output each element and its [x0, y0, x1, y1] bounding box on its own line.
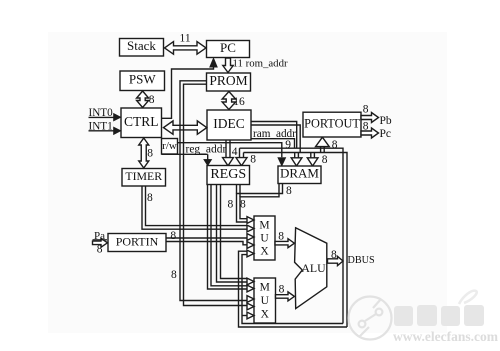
port PORTOUT	[303, 112, 361, 137]
svg-text:PC: PC	[220, 40, 236, 55]
input arrowhead upper MUX y253.5	[247, 250, 254, 257]
wire DRAM input shaft b	[297, 153, 299, 158]
svg-text:8: 8	[97, 244, 103, 256]
bus arrow PROM-IDEC (16)	[222, 92, 236, 110]
svg-text:8: 8	[363, 120, 369, 132]
svg-text:8: 8	[250, 154, 256, 166]
wire REGS left bus A to lower MUX in2	[208, 185, 247, 290]
svg-text:ALU: ALU	[301, 261, 326, 275]
svg-text:8: 8	[147, 192, 153, 204]
svg-text:9: 9	[285, 139, 291, 151]
bus arrow upper MUX to ALU (8)	[275, 239, 294, 248]
wire REGS bus B to lower MUX in1	[217, 185, 247, 283]
decoder IDEC	[207, 110, 251, 140]
svg-text:8: 8	[278, 230, 284, 242]
input arrowhead lower MUX y299	[247, 296, 254, 303]
wire IDEC data out lower	[251, 125, 300, 153]
arrowhead into DRAM top (black)	[278, 158, 286, 166]
svg-text:r/w: r/w	[162, 140, 177, 152]
wire IDEC data out upper	[251, 122, 297, 149]
wire IDEC to REGS bus line a	[225, 140, 227, 158]
wire REGS bus B2 to lower MUX in1	[221, 185, 247, 279]
svg-text:U: U	[261, 295, 270, 307]
wire TIMER bus down 2	[146, 186, 247, 226]
input arrowhead upper MUX y237	[247, 234, 254, 241]
svg-text:IDEC: IDEC	[213, 116, 245, 131]
wire TIMER bus down	[142, 186, 247, 229]
svg-text:X: X	[260, 246, 269, 258]
wire DRAM input2 shaft a	[310, 153, 312, 158]
svg-text:Stack: Stack	[127, 38, 156, 53]
svg-text:REGS: REGS	[210, 167, 246, 182]
svg-text:8: 8	[322, 154, 328, 166]
svg-text:DBUS: DBUS	[348, 255, 376, 266]
svg-text:8: 8	[147, 148, 153, 160]
wire DBUS return inner	[242, 255, 343, 324]
bus arrow CTRL-IDEC	[164, 121, 207, 134]
svg-text:PORTOUT: PORTOUT	[304, 116, 360, 130]
timer TIMER	[122, 169, 166, 187]
svg-text:4: 4	[232, 146, 238, 158]
diagram background panel	[48, 32, 447, 333]
svg-text:8: 8	[228, 199, 234, 211]
svg-text:U: U	[260, 233, 269, 245]
wire PORTIN to MUX in3	[166, 237, 247, 239]
svg-text:CTRL: CTRL	[124, 114, 159, 129]
wire REGS write bus from band line a	[239, 148, 241, 157]
register PC	[207, 40, 250, 58]
wire r/w to DRAM	[178, 143, 282, 158]
input arrowhead lower MUX y281.5	[247, 278, 254, 285]
signal INT0 into CTRL	[89, 116, 115, 118]
open arrowhead into REGS top right	[236, 158, 247, 166]
signal INT1 into CTRL	[89, 130, 115, 132]
wire reg_addr underline run	[162, 153, 208, 155]
open arrowhead into DRAM top right	[307, 158, 318, 166]
watermark flourish curl	[459, 291, 477, 304]
svg-text:16: 16	[233, 96, 245, 108]
wire IDEC to REGS bus line b	[229, 140, 231, 158]
svg-text:8: 8	[240, 199, 246, 211]
wire DRAM bottom to MUX bus a	[237, 184, 283, 223]
svg-text:DRAM: DRAM	[280, 166, 319, 181]
svg-text:8: 8	[286, 185, 292, 197]
wire REGS write bus from band line b	[243, 153, 245, 158]
wire DRAM bottom to MUX bus b	[240, 184, 279, 219]
svg-text:8: 8	[171, 269, 177, 281]
svg-text:8: 8	[331, 249, 337, 261]
input arrowhead upper MUX y228.5	[247, 225, 254, 232]
block CTRL	[121, 108, 162, 138]
bus arrow lower MUX to ALU (8)	[276, 292, 295, 301]
input arrowhead lower MUX y288.5	[247, 285, 254, 292]
bus arrow PC-PROM (rom_addr)	[223, 58, 233, 73]
open arrowhead into REGS top mid	[223, 158, 234, 166]
svg-text:8: 8	[363, 104, 369, 116]
bus arrow PORTOUT-Pb	[361, 113, 379, 123]
multiplexer MUX lower	[254, 278, 276, 323]
svg-text:INT1: INT1	[89, 121, 113, 133]
svg-text:Pc: Pc	[380, 128, 392, 140]
memory DRAM	[278, 166, 321, 184]
svg-text:X: X	[261, 309, 270, 321]
svg-text:Pb: Pb	[380, 115, 392, 127]
svg-text:M: M	[260, 282, 270, 294]
wire REGS bottom right bus to band	[236, 185, 238, 194]
wire ram_addr from IDEC	[251, 139, 295, 149]
bus arrow CTRL-TIMER (8)	[139, 138, 149, 168]
svg-text:8: 8	[279, 284, 285, 296]
watermark brand glyphs	[394, 305, 484, 326]
wire PROM literal bus line 2 (down left side)	[184, 84, 247, 305]
wire DRAM input2 shaft b	[313, 153, 315, 158]
memory REGS	[207, 166, 250, 185]
svg-text:8: 8	[332, 139, 338, 151]
wire DRAM input shaft a	[294, 153, 296, 158]
wire REGS left bus A2 to lower MUX in2	[211, 185, 247, 286]
input arrowhead upper MUX y245	[247, 242, 254, 249]
register Stack	[120, 38, 164, 56]
open arrowhead up into PORTOUT	[316, 137, 330, 146]
bus arrow Stack-PC (11)	[165, 42, 207, 55]
wire PORTOUT feed shaft	[320, 146, 322, 152]
bus arrow ALU to DBUS (8)	[328, 256, 344, 265]
port PORTIN	[108, 234, 166, 252]
input arrowhead upper MUX y220	[247, 217, 254, 224]
wire stem into REGS (black arrow)	[207, 154, 209, 159]
svg-text:8: 8	[149, 94, 155, 106]
wire DBUS return outer	[239, 251, 348, 327]
memory PROM	[207, 73, 251, 91]
multiplexer MUX upper	[254, 216, 275, 260]
svg-text:11: 11	[180, 33, 191, 45]
input arrowhead lower MUX y306.5	[247, 303, 254, 310]
svg-text:PROM: PROM	[209, 73, 247, 88]
watermark logo circle	[349, 297, 392, 340]
small box r/w	[162, 139, 178, 155]
register PSW	[120, 71, 165, 91]
bus arrow PORTOUT-Pc	[361, 128, 379, 138]
label Pa underline	[93, 239, 108, 241]
svg-text:INT0: INT0	[89, 107, 114, 119]
svg-text:TIMER: TIMER	[125, 169, 162, 183]
arrowhead into PC bottom (black)	[210, 58, 218, 67]
wire data band upper	[240, 148, 344, 323]
input arrowhead lower MUX y315.5	[247, 312, 254, 319]
svg-text:11 rom_addr: 11 rom_addr	[233, 57, 288, 69]
alu ALU	[295, 228, 327, 309]
bus arrow PSW-CTRL (8)	[137, 91, 149, 108]
svg-text:M: M	[259, 219, 269, 231]
svg-text:www.elecfans.com: www.elecfans.com	[393, 329, 499, 344]
arrowhead into REGS top (black)	[204, 159, 212, 165]
wire PROM literal bus line 1 (down left side)	[180, 81, 247, 301]
wire CTRL to PC load (left loop)	[162, 67, 214, 119]
bus arrow Pa-PORTIN (8)	[93, 238, 108, 247]
svg-text:reg_addr: reg_addr	[186, 144, 227, 156]
open arrowhead into DRAM top left	[291, 158, 302, 166]
svg-text:PSW: PSW	[129, 72, 156, 87]
wire DBUS return to lower MUX in5	[242, 315, 247, 317]
wire data band lower	[244, 153, 348, 328]
svg-text:PORTIN: PORTIN	[116, 234, 159, 248]
svg-text:8: 8	[170, 230, 176, 242]
wire PORTIN to MUX in4	[166, 242, 247, 245]
